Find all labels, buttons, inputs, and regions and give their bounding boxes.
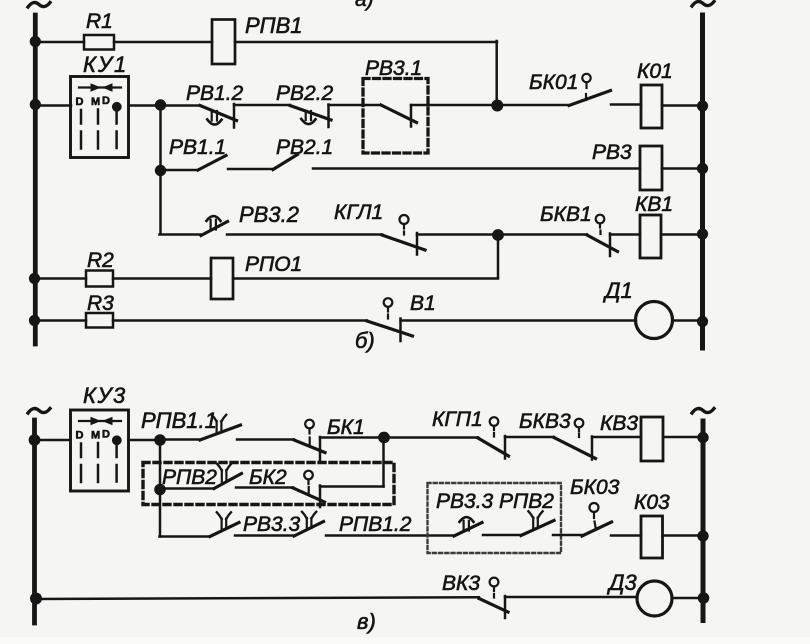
wire K03 to right bus bbox=[663, 534, 702, 537]
AC source tilde top-left bbox=[28, 3, 50, 8]
wire row1: bus to R1 bbox=[35, 41, 84, 44]
svg-text:В1: В1 bbox=[410, 292, 436, 315]
wire KGL1 to node bbox=[417, 233, 494, 236]
svg-text:БКВ3: БКВ3 bbox=[519, 410, 571, 433]
node left bus row5 bbox=[29, 273, 40, 284]
relay coil KV1 bbox=[635, 193, 673, 216]
svg-text:КГП1: КГП1 bbox=[432, 408, 483, 431]
node right bus rowB3 bbox=[697, 530, 708, 541]
svg-text:РВ2.2: РВ2.2 bbox=[276, 82, 334, 105]
node left bus rowB1 bbox=[29, 434, 41, 446]
wire node to RV1.1 bbox=[161, 169, 199, 172]
svg-text:РПВ1.1: РПВ1.1 bbox=[141, 408, 217, 433]
label b) bbox=[355, 328, 375, 353]
motor lamp D1 bbox=[602, 278, 633, 303]
contact RV1.1 (NO) bbox=[169, 136, 226, 159]
contact BK2 (NC limit switch) bbox=[249, 466, 287, 489]
dashed box RV3.3/RPV2 bbox=[428, 483, 562, 553]
wire node to KGP1 bbox=[384, 436, 478, 439]
svg-text:R3: R3 bbox=[87, 292, 114, 315]
svg-text:ВК3: ВК3 bbox=[442, 572, 480, 595]
node left bus rowB4 bbox=[30, 593, 42, 605]
node rowB2 left bbox=[154, 484, 166, 496]
node right bus row3 bbox=[697, 163, 708, 174]
vertical wire node B1 to B3 bbox=[159, 440, 162, 537]
svg-text:Д3: Д3 bbox=[606, 570, 637, 595]
node rowB1 left bbox=[154, 434, 166, 446]
wire V1 to D1 lamp bbox=[401, 319, 637, 322]
wire RPV1.1 to BK1 bbox=[237, 438, 294, 441]
wire R3 to V1 bbox=[113, 319, 367, 322]
wire BK1 to node bbox=[320, 436, 381, 439]
relay coil K01 bbox=[637, 60, 673, 83]
vertical wire BK2 up to node B1 mid bbox=[382, 438, 385, 487]
wire KU3 to node bbox=[129, 439, 157, 442]
AC source tilde top-right bbox=[692, 2, 714, 7]
node rowB1 mid bbox=[378, 432, 390, 444]
svg-text:а): а) bbox=[355, 0, 374, 11]
AC source tilde bottom-right bbox=[692, 409, 714, 414]
contact RV3.3 (NO, delay fork) bbox=[243, 513, 301, 536]
wire bus to KU1 bbox=[35, 104, 71, 107]
relay coil RPV1 bbox=[212, 20, 235, 65]
resistor R3 bbox=[86, 313, 113, 328]
svg-text:РПВ2: РПВ2 bbox=[499, 490, 554, 513]
command controller KU3 bbox=[83, 383, 127, 408]
wire node to BKV1 bbox=[498, 233, 587, 236]
node right bus row4 bbox=[697, 228, 708, 239]
wire RPV1.2 to dashed box 2 bbox=[326, 534, 454, 537]
contact RV3.3 in box (NO, delay up) bbox=[454, 523, 482, 537]
svg-text:РПВ2: РПВ2 bbox=[162, 466, 217, 489]
wire RV3.2 to KGL1 bbox=[227, 233, 382, 236]
svg-text:Д1: Д1 bbox=[602, 278, 633, 303]
svg-text:РВ3.2: РВ3.2 bbox=[239, 202, 299, 227]
wire RV2.2 to RV3.1 bbox=[329, 104, 382, 107]
wire K01 to right bus bbox=[662, 104, 701, 107]
label v) bbox=[357, 609, 376, 634]
svg-text:К01: К01 bbox=[637, 60, 673, 83]
node left bus row6 bbox=[29, 315, 40, 326]
svg-text:БКВ1: БКВ1 bbox=[540, 203, 592, 226]
wire KGP1 to BKV3 bbox=[505, 436, 554, 439]
motor lamp D3 bbox=[606, 570, 637, 595]
contact BKV1 (NC limit switch) bbox=[540, 203, 592, 226]
wire RV2.1 to RV3 coil bbox=[313, 167, 640, 170]
node right bus rowB4 bbox=[698, 592, 710, 604]
contact VK3 (NC switch) bbox=[442, 572, 480, 595]
contact RPV1.1 (NO, delay fork) bbox=[141, 408, 217, 433]
wire RV3 to right bus bbox=[662, 167, 701, 170]
svg-text:M: M bbox=[91, 96, 100, 108]
wire node to RPV2 bbox=[160, 487, 214, 490]
node: left bus row2 junction bbox=[30, 99, 41, 110]
wire BK2 right bbox=[320, 485, 384, 488]
svg-text:БК1: БК1 bbox=[327, 416, 365, 439]
svg-text:D: D bbox=[102, 429, 110, 441]
contact KGL1 (NC limit switch) bbox=[334, 201, 383, 224]
dashed box RV3.1 bbox=[365, 57, 422, 80]
wire RPO1 right and up to node row4 bbox=[233, 277, 498, 280]
wire D1 to right bus bbox=[673, 319, 702, 322]
right bus (bottom section) bbox=[701, 421, 706, 621]
wire node to BK01 bbox=[497, 104, 569, 107]
wire KV3 to right bus bbox=[663, 436, 701, 439]
wire R1 to RPV1 coil bbox=[114, 41, 212, 44]
resistor R2 bbox=[86, 271, 113, 287]
svg-text:R2: R2 bbox=[87, 249, 114, 272]
wire corner B3 to RV3.3 bbox=[160, 535, 211, 538]
svg-text:РВ3.3: РВ3.3 bbox=[243, 513, 301, 536]
wire RV3.1 to node bbox=[411, 104, 493, 107]
wire RPV1 to right corner bbox=[235, 41, 497, 44]
svg-text:РВ2.1: РВ2.1 bbox=[276, 136, 333, 159]
wire corner down to row2 node bbox=[495, 41, 498, 104]
contact V1 (NC switch) bbox=[410, 292, 436, 315]
svg-text:РПВ1: РПВ1 bbox=[245, 13, 303, 38]
node row2 right bbox=[491, 100, 503, 112]
relay coil K03 bbox=[634, 491, 670, 514]
contact BK03 (NO limit switch) bbox=[570, 476, 620, 499]
wire BK03 to K03 bbox=[611, 534, 641, 537]
command controller KU1 bbox=[83, 52, 128, 77]
svg-text:РПО1: РПО1 bbox=[245, 253, 302, 276]
svg-text:РПВ1.2: РПВ1.2 bbox=[339, 513, 412, 536]
contact RPV1.2 (NO, delay fork) bbox=[339, 513, 412, 536]
wire BK01 to K01 bbox=[611, 103, 641, 106]
wire KV1 to right bus bbox=[661, 233, 701, 236]
vertical wire row3 to row4 bbox=[159, 170, 162, 234]
svg-text:К03: К03 bbox=[634, 491, 670, 514]
wire RV1.1 to RV2.1 bbox=[228, 168, 273, 171]
svg-text:КУ1: КУ1 bbox=[83, 52, 128, 77]
wire VK3 to D3 bbox=[505, 596, 637, 599]
svg-text:БК2: БК2 bbox=[249, 466, 287, 489]
label a) top center bbox=[355, 0, 374, 11]
svg-text:РВ3.1: РВ3.1 bbox=[365, 57, 422, 80]
svg-text:КВ3: КВ3 bbox=[600, 412, 638, 435]
wire bus to VK3 bbox=[35, 597, 479, 599]
right bus (top section) bbox=[700, 15, 705, 348]
svg-text:БК03: БК03 bbox=[570, 476, 620, 499]
wire RV3.3 to RPV1.2 bbox=[235, 534, 294, 537]
wire corner to RV3.2 bbox=[160, 233, 202, 236]
contact RV3.2 (NO, delay up) bbox=[239, 202, 299, 227]
svg-text:D: D bbox=[102, 95, 110, 107]
contact RV2.1 (NO) bbox=[276, 136, 333, 159]
wire node to RPV1.1 bbox=[160, 438, 200, 441]
relay coil RPO1 bbox=[245, 253, 302, 276]
relay coil RV3 bbox=[592, 141, 632, 164]
svg-text:D: D bbox=[76, 96, 84, 108]
contact RV1.2 (NC, delay) bbox=[186, 82, 244, 105]
wire to RPV2 in box bbox=[483, 534, 521, 537]
svg-text:РВ3: РВ3 bbox=[592, 141, 632, 164]
wire KU1 to node bbox=[129, 104, 157, 107]
svg-text:РВ1.1: РВ1.1 bbox=[169, 136, 226, 159]
contact RV2.2 (NC, delay) bbox=[276, 82, 334, 105]
node row4 bbox=[492, 229, 504, 241]
node right bus rowB1 bbox=[697, 432, 708, 443]
node: left bus row1 junction bbox=[30, 36, 41, 47]
wire RPV2 to BK2 bbox=[236, 486, 293, 489]
resistor R1 bbox=[84, 35, 114, 50]
left bus (top section) bbox=[33, 15, 38, 344]
wire bus to R2 bbox=[34, 277, 86, 280]
relay coil KV3 bbox=[600, 412, 638, 435]
dashed box RPV2/BK2 bbox=[143, 463, 394, 505]
node row2 left bbox=[155, 99, 166, 110]
vertical wire node row2 to row3 bbox=[159, 105, 162, 170]
contact BK01 (NO limit switch) bbox=[529, 71, 578, 94]
contact RPV2 in box (NO, delay fork) bbox=[521, 521, 554, 536]
svg-text:БК01: БК01 bbox=[529, 71, 578, 94]
contact RPV2 (NO, delay fork) bbox=[162, 466, 217, 489]
wire D3 to right bus bbox=[672, 597, 701, 600]
svg-text:R1: R1 bbox=[86, 10, 113, 33]
svg-text:D: D bbox=[76, 430, 84, 442]
node row3 left bbox=[155, 165, 166, 176]
vertical wire node row4 down to RPO1 row bbox=[497, 235, 500, 278]
svg-text:РВ1.2: РВ1.2 bbox=[186, 82, 244, 105]
AC source tilde bottom-left bbox=[28, 409, 50, 414]
svg-text:РВ3.3: РВ3.3 bbox=[436, 490, 494, 513]
wire bus to R3 bbox=[34, 319, 86, 322]
left bus (bottom section) bbox=[32, 420, 37, 623]
svg-text:КУ3: КУ3 bbox=[83, 383, 127, 408]
svg-text:б): б) bbox=[355, 328, 375, 353]
contact RV3.1 (NC) bbox=[381, 105, 417, 123]
contact BKV3 (NC limit switch) bbox=[519, 410, 571, 433]
node right bus row2 bbox=[697, 100, 708, 111]
node right bus row6 bbox=[697, 316, 708, 327]
contact BK1 (NC limit switch) bbox=[327, 416, 365, 439]
svg-text:КВ1: КВ1 bbox=[635, 193, 673, 216]
wire bus to KU3 bbox=[34, 439, 70, 442]
wire node to RV1.2 bbox=[161, 104, 201, 107]
wire R2 to RPO1 bbox=[113, 277, 211, 280]
wire box to BK03 bbox=[553, 534, 582, 537]
svg-text:M: M bbox=[91, 430, 100, 442]
wire BKV3 to KV3 bbox=[592, 436, 641, 439]
svg-text:в): в) bbox=[357, 609, 376, 634]
contact KGP1 (NC limit switch) bbox=[432, 408, 483, 431]
wire BKV1 to KV1 bbox=[610, 233, 640, 236]
svg-text:КГЛ1: КГЛ1 bbox=[334, 201, 383, 224]
wire RV1.2 to RV2.2 bbox=[234, 104, 290, 107]
